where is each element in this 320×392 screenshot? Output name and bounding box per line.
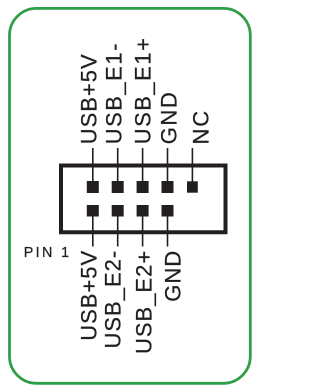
svg-text:NC: NC — [188, 109, 213, 144]
svg-text:PIN 1: PIN 1 — [24, 245, 72, 261]
svg-text:USB+5V: USB+5V — [76, 53, 101, 144]
svg-text:USB+5V: USB+5V — [76, 250, 101, 341]
wire pin6 top col3 — [142, 148, 144, 183]
pin 10 NC top row — [187, 181, 198, 192]
svg-text:GND: GND — [157, 91, 182, 145]
pin 7 GND bottom row — [162, 205, 174, 217]
pin 4 USB_E1- top row — [112, 181, 124, 193]
pin 6 USB_E1+ top row — [137, 181, 149, 193]
wire pin1 bottom col1 — [92, 214, 94, 247]
wire pin3 bottom col2 — [117, 214, 119, 247]
wire pin10 NC col5 — [191, 148, 193, 183]
connector J1 USB header outline — [61, 166, 226, 233]
wire pin5 bottom col3 — [142, 214, 144, 247]
wire pin7 bottom col4 — [167, 214, 169, 247]
pin 3 USB_E2- bottom row — [112, 205, 124, 217]
wire pin2 top col1 — [92, 148, 94, 183]
pin 1 USB+5V bottom row — [87, 205, 99, 217]
svg-text:USB_E2+: USB_E2+ — [131, 250, 156, 354]
svg-text:GND: GND — [160, 250, 185, 302]
wire pin8 top col4 — [167, 148, 169, 183]
wire pin4 top col2 — [117, 148, 119, 183]
svg-text:USB_E1+: USB_E1+ — [131, 37, 156, 145]
pin 8 GND top row — [162, 181, 174, 193]
svg-text:USB_E2-: USB_E2- — [101, 250, 126, 349]
pin 5 USB_E2+ bottom row — [137, 205, 149, 217]
svg-text:USB_E1-: USB_E1- — [101, 42, 126, 144]
pin 2 USB+5V top row — [87, 181, 99, 193]
